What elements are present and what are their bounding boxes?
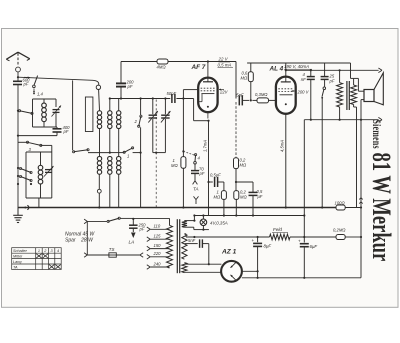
svg-text:TA: TA [193,187,199,192]
AF7 anode [203,81,213,83]
heater winding 4V [182,221,187,228]
wire coil box bottom [33,126,58,128]
svg-text:22 V: 22 V [218,57,229,62]
resistor 4 MOhm [157,59,168,64]
capacitor 8 uF [257,236,259,238]
switch 2 [140,97,142,99]
dial lamp 4V 0,35A [200,219,207,226]
resistor 1 MOhm TA [182,99,184,157]
capacitor 5 nF mains [184,243,197,245]
output transformer primary [339,69,341,71]
svg-text:240: 240 [153,261,162,266]
cathode loop wire [193,99,195,121]
svg-text:Lang: Lang [13,260,22,264]
svg-text:AF 7: AF 7 [191,64,206,71]
wire antenna to coupling coil [17,76,19,78]
resistor 0,6 MOhm [250,63,252,72]
screen bus wire [121,61,236,63]
switch 4 TA [183,151,194,155]
fuse TS [84,253,87,255]
capacitor 5 nF [238,95,240,105]
svg-text:81 W Merkur: 81 W Merkur [367,153,396,262]
speaker wires [358,90,364,92]
svg-text:150: 150 [154,243,162,248]
AF7 heater [207,106,209,108]
coil L4 column 1 [99,129,101,157]
ground [17,208,19,216]
capacitor 4 nF [310,69,312,71]
switch blade a [17,110,19,112]
svg-text:5nF: 5nF [188,238,196,243]
svg-text:pF: pF [63,129,69,134]
capacitor 25 pF [324,63,326,76]
svg-text:4V,0,35A: 4V,0,35A [210,221,228,226]
svg-text:22V: 22V [219,90,229,95]
svg-text:MΩ: MΩ [214,195,221,200]
table crosses [36,254,60,269]
variable capacitor C-v1 [152,97,154,99]
svg-text:pF: pF [23,82,29,87]
svg-text:0,3MΩ: 0,3MΩ [255,92,268,97]
capacitor 0,5 uF cathode [207,181,209,183]
wire secondary to bus [356,107,358,208]
wire junction 400pF [17,135,19,137]
svg-text:1: 1 [38,249,40,253]
coil L2 [40,152,42,165]
trimmer capacitor C-t1 [53,109,60,111]
coil L4 column 2 [109,152,111,154]
svg-text:Schalter: Schalter [13,249,28,253]
variable capacitor C-v2 [164,97,166,99]
svg-text:200 V: 200 V [297,90,310,95]
output transformer core [346,81,348,110]
svg-text:0,2MΩ: 0,2MΩ [333,228,346,233]
resistor 0,2 MOhm upper [235,102,237,158]
capacitor 250 pF LA [132,219,134,225]
AZ1 cathode wire [242,270,258,272]
mains transformer primary [169,218,171,225]
svg-text:Mittel: Mittel [13,255,22,259]
svg-text:Siemens: Siemens [369,120,382,149]
antenna [17,52,19,64]
capacitor 6 uF [303,236,305,238]
svg-text:1,7mA: 1,7mA [202,140,207,152]
svg-text:Feld: Feld [273,227,282,232]
svg-text:TA: TA [13,266,18,270]
resistor 0,2 MOhm lower [234,191,239,200]
resistor 0,3 MOhm [252,99,257,101]
svg-text:MΩ: MΩ [241,76,248,81]
svg-text:MΩ: MΩ [171,163,178,168]
svg-text:100Ω: 100Ω [335,201,346,206]
capacitor 200 pF [120,87,122,99]
svg-text:125: 125 [154,234,162,239]
mains transformer core [176,219,178,273]
trimmer capacitor C-t2 [45,169,52,171]
TA jack lower [194,196,197,199]
svg-text:50pF: 50pF [167,91,177,96]
output transformer secondary [350,63,352,78]
ganged switch link [155,100,157,208]
cathode wire 4,5 mA [285,114,287,208]
svg-text:MΩ: MΩ [240,163,247,168]
coil box L1 top wire [33,98,57,100]
svg-text:AZ 1: AZ 1 [221,249,237,256]
svg-text:+: + [252,238,255,243]
switch table [12,248,62,270]
AZ1 anode wires [184,263,221,265]
ground return wire [242,277,361,279]
AL4 heater [285,103,287,105]
wire antenna chain down [17,85,19,208]
mains wire to transformer [132,218,134,220]
svg-text:110: 110 [154,224,161,229]
heater winding AZ1 [182,263,187,273]
wire break mark [359,198,363,200]
capacitor 70 pF [194,164,196,170]
svg-text:LA: LA [129,240,135,246]
gang link wire [153,152,166,154]
svg-text:TS: TS [109,247,115,252]
svg-text:1,4: 1,4 [37,92,43,97]
antenna lead-in bushing [16,67,21,72]
svg-text:5nF: 5nF [236,93,244,98]
tone switch [324,79,326,86]
grid jog wire [182,97,184,99]
svg-text:4MΩ: 4MΩ [157,65,167,70]
HV winding [182,234,187,259]
rectifier AZ1 [221,261,242,282]
svg-text:0,5 mA: 0,5 mA [218,63,232,68]
coil L3 column 3 [118,99,120,111]
anode riser wire [285,63,287,77]
capacitor 400 pF [56,127,58,129]
wire heater to heater bus [193,216,195,221]
band switch contacts [17,167,19,169]
coil L3 column 1 [98,89,101,110]
anode feed wire [304,119,378,121]
svg-text:220: 220 [153,251,162,256]
anode bus wire [286,69,379,71]
AF7 grids [201,87,216,89]
cathode current wire 1,7 mA [208,121,210,216]
AL4 grids [278,88,293,90]
heater return bus [194,215,304,217]
switch contact 1,4 [34,76,37,85]
bias branch wire [235,181,237,183]
resistor 100 Ohm [336,205,345,210]
AL4 screen bus wire [247,62,350,64]
AF7 cathode [201,93,214,95]
svg-text:MΩ: MΩ [240,195,247,200]
tube AL4 [276,77,296,114]
connector earth jack [24,207,26,209]
svg-text:8μF: 8μF [264,244,272,249]
screening box [85,97,93,132]
svg-text:4,5mA: 4,5mA [280,140,285,152]
chassis bus wire [18,207,336,209]
switch blade b [18,141,28,143]
switch return wire [321,98,323,208]
AL4 anode [281,81,291,83]
speaker [364,90,374,102]
svg-text:AL 4: AL 4 [269,66,284,73]
capacitor 0,5 uF bias [252,182,254,192]
grid bus wire [110,98,171,100]
tube AF7 [207,60,209,62]
svg-text:190 V, 40mA: 190 V, 40mA [284,64,309,69]
capacitor 600 pF [17,77,19,81]
wire screen bus corner [235,62,237,99]
label 22V grid [219,89,224,91]
label 200 V [292,90,297,92]
resistor 0,2 MOhm output [336,235,345,240]
TA jack upper [193,181,195,185]
svg-text:μF: μF [257,194,263,199]
coil L4 column 3 [117,156,121,160]
B+ rail wire [184,233,186,235]
coupling winding hook [93,80,99,85]
mains switch [84,219,87,221]
capacitor 50 pF [171,94,173,103]
svg-text:6μF: 6μF [310,244,318,249]
voltage selector sockets [147,227,150,229]
svg-text:0,5μF: 0,5μF [210,173,221,178]
svg-text:Spar 28 W: Spar 28 W [65,238,94,244]
svg-text:pF: pF [139,227,145,232]
svg-text:nF: nF [301,77,306,82]
coil L1 [43,99,45,103]
svg-text:4: 4 [57,249,59,253]
wire box to chassis bus [38,198,40,208]
svg-text:pF: pF [199,171,205,176]
switch 1 [110,152,124,154]
coil L3 column 2 [109,97,111,99]
svg-text:pF: pF [329,78,335,83]
hum-buck wire [360,100,362,278]
antenna loop branch [72,80,74,150]
potentiometer 1 MOhm volume [223,182,225,191]
svg-text:1: 1 [127,154,129,159]
svg-text:pF: pF [127,84,133,89]
AL4 cathode [280,94,293,96]
switch blade loop [74,150,88,152]
svg-text:+: + [298,239,301,244]
coil box L2 outline [26,151,52,153]
